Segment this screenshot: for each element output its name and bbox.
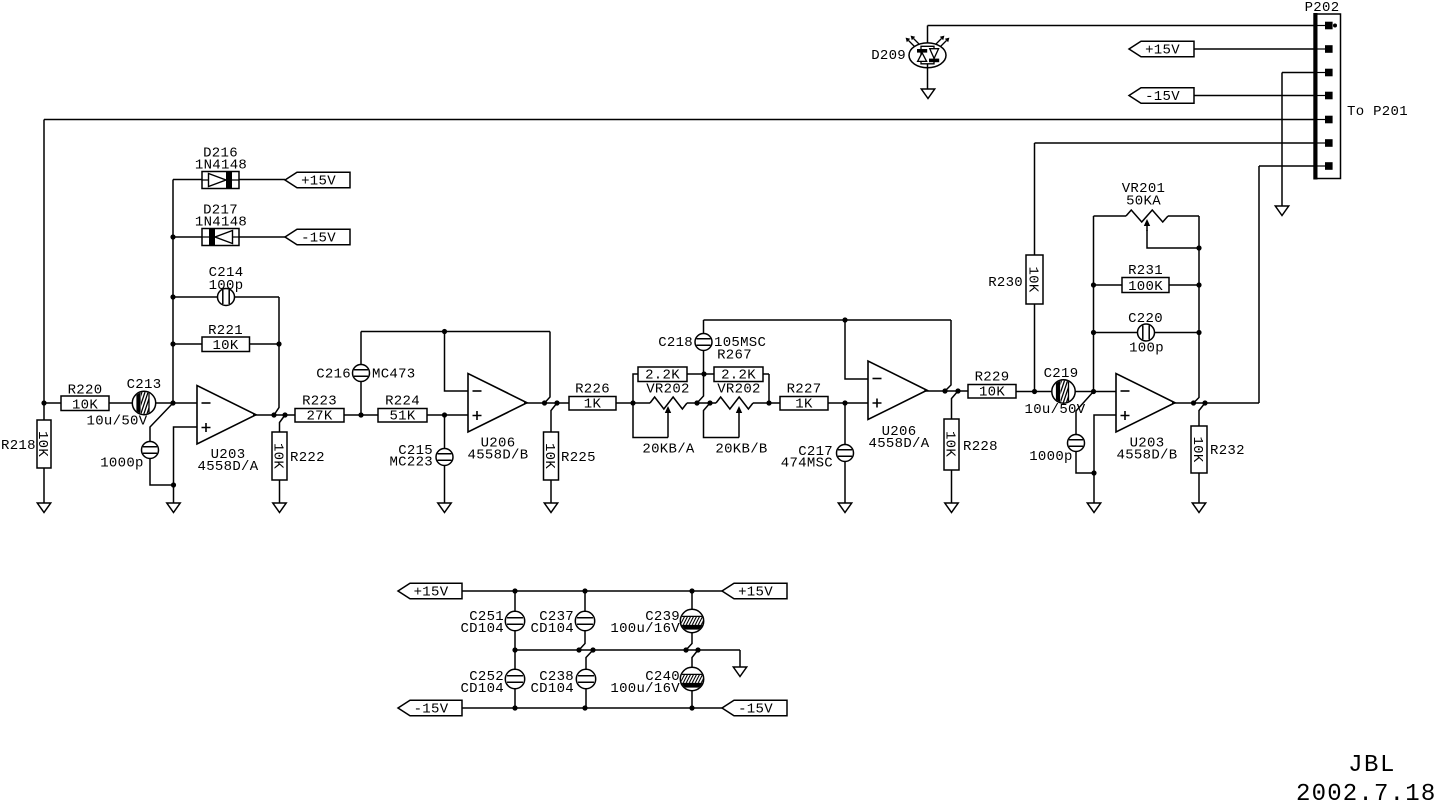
node stage1 inverting input xyxy=(170,400,175,405)
resistor R230 xyxy=(988,143,1322,392)
wire VR202B to R227 xyxy=(753,402,780,404)
wire U203B output xyxy=(1172,166,1322,403)
connector P202 xyxy=(1305,0,1408,180)
wire U206A output xyxy=(924,390,968,392)
node C218 to 2.2K junction xyxy=(701,371,706,376)
capacitor C240 xyxy=(610,667,705,697)
diode D217 1N4148 xyxy=(173,203,285,246)
svg-text:R226: R226 xyxy=(575,382,610,398)
op-amp U203 4558D/B xyxy=(1116,374,1177,464)
wire VR202A to VR202B xyxy=(687,402,716,404)
svg-text:R220: R220 xyxy=(68,383,103,399)
wire input net from P202 pin 5 xyxy=(44,120,1322,404)
capacitor C218 xyxy=(658,320,766,403)
wire -15V rail xyxy=(462,707,726,709)
svg-text:4558D/B: 4558D/B xyxy=(1117,448,1178,464)
capacitor C213 xyxy=(87,377,162,430)
svg-text:474MSC: 474MSC xyxy=(781,456,833,472)
svg-text:R224: R224 xyxy=(385,394,420,410)
node R230 bottom xyxy=(1032,389,1037,394)
svg-text:C218: C218 xyxy=(658,335,693,351)
wire U203A non-inverting input to ground xyxy=(174,427,198,503)
svg-text:4558D/A: 4558D/A xyxy=(198,459,259,475)
node 1000p bottom xyxy=(171,482,176,487)
svg-text:10K: 10K xyxy=(1025,266,1041,292)
ground at U203A plus xyxy=(167,503,180,513)
capacitor C220 xyxy=(1094,311,1200,357)
resistor R226 xyxy=(569,382,616,413)
svg-text:R222: R222 xyxy=(290,450,325,466)
capacitor C214 xyxy=(173,265,279,306)
ground at U203B plus xyxy=(1087,503,1100,513)
svg-text:C216: C216 xyxy=(316,367,351,383)
wire stage3 feedback right leg xyxy=(945,320,951,391)
resistor R231 xyxy=(1094,263,1200,295)
svg-text:R232: R232 xyxy=(1210,443,1245,459)
resistor R227 xyxy=(780,382,828,413)
node stage2 output b xyxy=(554,400,559,405)
ground at D209 xyxy=(921,89,934,99)
svg-text:+15V: +15V xyxy=(414,585,449,601)
svg-text:100p: 100p xyxy=(209,278,244,294)
ground at R218 xyxy=(37,503,50,513)
node R231 right xyxy=(1196,282,1201,287)
svg-text:1K: 1K xyxy=(795,397,813,413)
svg-text:VR202: VR202 xyxy=(717,382,761,398)
svg-text:D209: D209 xyxy=(871,48,906,64)
wire C251 C252 column xyxy=(514,591,516,708)
node mid pots a xyxy=(694,400,699,405)
svg-text:4558D/B: 4558D/B xyxy=(468,448,529,464)
op-amp U206 4558D/A xyxy=(868,361,930,452)
svg-text:1000p: 1000p xyxy=(100,456,144,472)
wire R229 to U203B inverting input xyxy=(1016,391,1116,393)
svg-text:100u/16V: 100u/16V xyxy=(610,681,680,697)
wire P202 pin3 to ground xyxy=(1282,73,1322,207)
resistor R225 xyxy=(541,403,596,503)
ground at R232 xyxy=(1192,503,1205,513)
resistor R224 xyxy=(378,394,427,425)
wire R226 to VR202A xyxy=(616,402,650,404)
svg-text:100u/16V: 100u/16V xyxy=(610,621,680,637)
LED D209 xyxy=(871,36,949,68)
ground at R222 xyxy=(273,503,286,513)
wire 2.2K A to 2.2K B xyxy=(687,373,714,375)
capacitor C216 xyxy=(316,332,415,416)
svg-text:100p: 100p xyxy=(1129,341,1164,357)
svg-text:MC223: MC223 xyxy=(389,455,433,471)
svg-text:10u/50V: 10u/50V xyxy=(87,414,148,430)
node C216 bottom xyxy=(358,412,363,417)
node rail2 C240 xyxy=(689,705,694,710)
resistor R223 xyxy=(295,394,344,425)
svg-text:R225: R225 xyxy=(561,450,596,466)
wire stage2 feedback to inverting input xyxy=(445,332,469,392)
svg-text:C219: C219 xyxy=(1044,366,1079,382)
flag -15V at D217 xyxy=(285,229,350,246)
ground at C215 xyxy=(438,503,451,513)
title JBL xyxy=(1348,752,1396,779)
wire stage1 feedback to output xyxy=(274,297,279,415)
potentiometer VR201 50KA xyxy=(1094,181,1200,392)
potentiometer VR202/A 20KB/A xyxy=(633,382,695,458)
svg-text:VR202: VR202 xyxy=(646,382,690,398)
wire U203A output xyxy=(253,414,295,416)
capacitor 1000p stage1 xyxy=(100,403,173,485)
flag +15V at D216 xyxy=(285,172,350,189)
capacitor C239 xyxy=(610,609,705,637)
svg-text:-15V: -15V xyxy=(1145,89,1180,105)
node rail2 C252 xyxy=(512,705,517,710)
capacitor C238 xyxy=(530,669,595,697)
svg-text:10K: 10K xyxy=(270,443,286,469)
capacitor C219 xyxy=(1025,366,1086,418)
node stage3 feedback tap xyxy=(842,317,847,322)
node C220 left xyxy=(1091,330,1096,335)
resistor R232 xyxy=(1189,403,1245,503)
resistor R228 xyxy=(942,391,998,503)
node C220 right xyxy=(1196,330,1201,335)
svg-text:R230: R230 xyxy=(988,275,1023,291)
node R221 right xyxy=(276,341,281,346)
node stage4 inverting input xyxy=(1091,389,1096,394)
node rail1 C239 xyxy=(689,588,694,593)
capacitor C215 xyxy=(389,415,453,503)
node VR202B right xyxy=(766,400,771,405)
flag +15V at P202 pin2 xyxy=(1129,41,1322,58)
date 2002.7.18 xyxy=(1296,781,1434,801)
svg-text:10K: 10K xyxy=(1189,436,1205,462)
wire C213 to U203A inverting input xyxy=(156,402,197,404)
svg-text:-15V: -15V xyxy=(738,702,773,718)
svg-text:-15V: -15V xyxy=(414,702,449,718)
svg-text:1000p: 1000p xyxy=(1029,449,1073,465)
svg-text:10K: 10K xyxy=(72,398,98,414)
flag +15V bottom right xyxy=(722,583,787,600)
resistor R218 xyxy=(1,403,51,503)
svg-text:1N4148: 1N4148 xyxy=(195,215,247,231)
wire stage3 feedback top xyxy=(704,319,952,321)
flag -15V at P202 pin4 xyxy=(1129,88,1322,105)
svg-text:CD104: CD104 xyxy=(460,621,504,637)
node R221 left xyxy=(170,341,175,346)
wire C237 C238 column xyxy=(579,591,593,708)
node mid C237 b xyxy=(590,647,595,652)
svg-text:10K: 10K xyxy=(212,338,238,354)
op-amp U203 4558D/A xyxy=(197,386,259,476)
potentiometer VR202/B 20KB/B xyxy=(704,382,768,458)
node stage2 output a xyxy=(542,400,547,405)
node stage4 output b xyxy=(1202,400,1207,405)
wire P202 pin1 to D209 xyxy=(928,26,1323,47)
capacitor C217 xyxy=(781,403,854,503)
svg-text:1K: 1K xyxy=(584,397,602,413)
trimmer 2.2K section B of VR202 (R267) xyxy=(714,348,769,404)
wire U206B output xyxy=(524,402,569,404)
node stage2 feedback tap xyxy=(442,329,447,334)
wire stage3 feedback to inverting input xyxy=(845,320,868,379)
node stage1 output a xyxy=(271,412,276,417)
capacitor C251 xyxy=(460,609,524,637)
node rail1 C237 xyxy=(582,588,587,593)
svg-text:MC473: MC473 xyxy=(372,367,416,383)
svg-text:-15V: -15V xyxy=(301,231,336,247)
resistor R229 xyxy=(968,370,1016,401)
flag +15V bottom left xyxy=(398,583,462,600)
svg-text:51K: 51K xyxy=(389,409,415,425)
node rail2 C238 xyxy=(582,705,587,710)
svg-text:100K: 100K xyxy=(1128,279,1163,295)
wire mid rail xyxy=(515,650,740,667)
node VR201 wiper join xyxy=(1196,245,1201,250)
capacitor C237 xyxy=(530,609,594,637)
wire U203B non-inverting input to ground xyxy=(1094,415,1116,503)
wire D209 to ground xyxy=(927,64,929,89)
resistor R222 xyxy=(270,415,325,503)
svg-text:50KA: 50KA xyxy=(1126,194,1161,210)
node D217 anode xyxy=(170,234,175,239)
node R218 top xyxy=(41,400,46,405)
svg-text:CD104: CD104 xyxy=(530,681,574,697)
node stage3 output b xyxy=(955,388,960,393)
node stage1 output b xyxy=(282,412,287,417)
flag -15V bottom right xyxy=(722,700,787,717)
svg-text:4558D/A: 4558D/A xyxy=(869,436,930,452)
ground at R225 xyxy=(544,503,557,513)
wire VR201 right leg xyxy=(1194,216,1200,403)
wire R223 to R224 xyxy=(344,414,378,416)
svg-text:R223: R223 xyxy=(302,394,337,410)
node VR202A left xyxy=(630,400,635,405)
svg-text:R267: R267 xyxy=(717,348,752,364)
node mid C237 a xyxy=(576,647,581,652)
svg-text:20KB/A: 20KB/A xyxy=(642,442,695,458)
op-amp U206 4558D/B xyxy=(468,374,529,464)
wire feedback ladder stage1 xyxy=(172,180,174,404)
node C215 top xyxy=(442,412,447,417)
svg-text:+15V: +15V xyxy=(1145,43,1180,59)
svg-text:R231: R231 xyxy=(1128,263,1163,279)
ground at mid rail xyxy=(733,667,746,677)
svg-text:C213: C213 xyxy=(127,377,162,393)
svg-text:10K: 10K xyxy=(541,443,557,469)
svg-text:10K: 10K xyxy=(942,431,958,457)
node stage3 output a xyxy=(942,388,947,393)
node R231 left xyxy=(1091,282,1096,287)
node mid rail C251 xyxy=(512,647,517,652)
node rail1 C251 xyxy=(512,588,517,593)
svg-text:2002.7.18: 2002.7.18 xyxy=(1296,781,1434,801)
capacitor 1000p stage4 xyxy=(1029,392,1094,474)
svg-text:R227: R227 xyxy=(787,382,822,398)
svg-text:27K: 27K xyxy=(306,409,332,425)
svg-text:10K: 10K xyxy=(34,431,50,457)
svg-text:R228: R228 xyxy=(963,439,998,455)
node C214 left xyxy=(170,294,175,299)
svg-text:1N4148: 1N4148 xyxy=(195,158,247,174)
svg-text:R218: R218 xyxy=(1,438,36,454)
svg-text:20KB/B: 20KB/B xyxy=(715,442,767,458)
svg-text:P202: P202 xyxy=(1305,0,1340,16)
svg-text:CD104: CD104 xyxy=(530,621,574,637)
resistor R221 xyxy=(173,323,279,354)
capacitor C252 xyxy=(460,669,524,697)
node mid C239 a xyxy=(683,647,688,652)
svg-text:10K: 10K xyxy=(979,385,1005,401)
node mid C239 b xyxy=(695,647,700,652)
wire R227 to U206A plus xyxy=(828,402,868,404)
wire R224 to U206B plus xyxy=(427,414,468,416)
flag -15V bottom left xyxy=(398,700,462,717)
node C217 top xyxy=(842,400,847,405)
trimmer 2.2K section A of VR202 xyxy=(633,367,687,403)
svg-text:C220: C220 xyxy=(1128,311,1163,327)
wire +15V rail xyxy=(462,590,722,592)
svg-text:CD104: CD104 xyxy=(460,681,504,697)
svg-text:R221: R221 xyxy=(208,323,243,339)
ground at P202 pin3 xyxy=(1275,206,1288,216)
wire stage2 feedback top xyxy=(361,331,550,333)
wire stage2 feedback right leg xyxy=(545,332,551,404)
node mid pots b xyxy=(707,400,712,405)
node 1000p-4 bottom xyxy=(1091,470,1096,475)
svg-text:+15V: +15V xyxy=(738,585,773,601)
ground at C217 xyxy=(838,503,851,513)
node stage4 output a xyxy=(1191,400,1196,405)
ground at R228 xyxy=(945,503,958,513)
svg-text:R229: R229 xyxy=(975,370,1010,386)
wire C239 C240 column xyxy=(686,591,698,708)
resistor R220 xyxy=(44,383,136,414)
svg-text:To P201: To P201 xyxy=(1347,104,1408,120)
svg-text:JBL: JBL xyxy=(1348,752,1396,779)
diode D216 1N4148 xyxy=(173,146,285,189)
svg-text:+15V: +15V xyxy=(301,174,336,190)
